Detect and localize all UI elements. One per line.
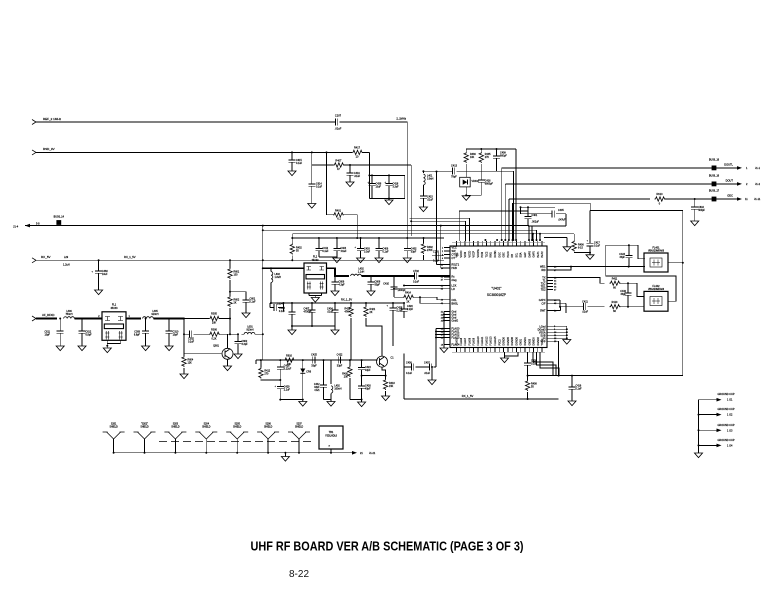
ground: [331, 291, 339, 296]
page number: [289, 568, 309, 580]
ground: [333, 258, 341, 263]
inductor L306: [64, 310, 75, 319]
svg-text:YSDLHDL8: YSDLHDL8: [325, 436, 338, 438]
filter FL401: [644, 247, 668, 273]
svg-text:0.1uF: 0.1uF: [413, 281, 420, 284]
svg-text:R305: R305: [211, 313, 217, 316]
ground: [382, 396, 390, 401]
wire DOUTL net: [502, 168, 738, 240]
wire: [262, 225, 264, 361]
node junction: [571, 375, 573, 377]
svg-text:RX_1_5V: RX_1_5V: [124, 255, 136, 259]
ferrite bead BUS6_14: [54, 216, 65, 226]
svg-text:270: 270: [264, 373, 269, 376]
inductor L602: [263, 267, 281, 304]
capacitor C416: [465, 180, 493, 197]
wire emitter: [382, 367, 386, 375]
transistor Q601: [213, 345, 233, 360]
wire: [262, 229, 537, 241]
wire: [532, 233, 534, 241]
ground: [180, 374, 188, 379]
svg-text:RX_1_5V: RX_1_5V: [462, 394, 474, 398]
svg-text:SHIELD: SHIELD: [202, 427, 211, 429]
inductor L402: [351, 268, 365, 276]
svg-text:43pF: 43pF: [365, 369, 371, 372]
svg-text:J1-11: J1-11: [754, 197, 761, 201]
svg-text:750nH: 750nH: [65, 313, 72, 316]
svg-text:VCCO: VCCO: [460, 250, 463, 257]
node connector J1-2: [737, 182, 761, 186]
svg-text:.01uF: .01uF: [582, 311, 589, 314]
capacitor C310: [166, 319, 179, 347]
svg-text:0.1uF: 0.1uF: [383, 251, 390, 254]
wire CAPX stub: [553, 300, 561, 308]
capacitor C404: [333, 237, 347, 258]
capacitor C409: [493, 148, 507, 171]
ferrite bead BUS6_16: [709, 159, 734, 171]
node junction: [527, 375, 529, 377]
svg-text:FLAG11: FLAG11: [481, 336, 484, 345]
svg-text:R610: R610: [657, 193, 664, 196]
wire bold: [334, 275, 415, 277]
svg-text:IRD: IRD: [541, 269, 546, 272]
wire collector: [381, 348, 383, 357]
svg-text:.002uF: .002uF: [532, 221, 540, 224]
wire: [184, 318, 201, 320]
wire: [291, 325, 335, 327]
wire: [59, 318, 102, 320]
svg-text:0.2K: 0.2K: [212, 337, 217, 340]
svg-text:ODC: ODC: [727, 194, 733, 198]
svg-text:1 G3: 1 G3: [727, 429, 733, 432]
title text: [251, 539, 524, 554]
svg-text:VCCPA: VCCPA: [477, 249, 480, 257]
svg-text:2.2uF: 2.2uF: [284, 389, 291, 392]
capacitor C432: [620, 283, 631, 308]
svg-text:DGND2: DGND2: [537, 336, 540, 345]
svg-text:R407: R407: [335, 160, 342, 163]
svg-text:43pF: 43pF: [365, 388, 371, 391]
svg-text:20K: 20K: [344, 376, 349, 379]
ferrite bead BUS6_17: [709, 190, 733, 202]
svg-text:SCL: SCL: [515, 252, 518, 257]
wire: [513, 203, 683, 240]
wire: [392, 311, 394, 346]
svg-text:DGND0: DGND0: [515, 336, 518, 345]
svg-text:45U33: 45U33: [110, 307, 118, 310]
svg-text:0.1uF: 0.1uF: [279, 310, 286, 313]
wire: [219, 319, 238, 336]
diode CR6: [300, 359, 311, 401]
capacitor C611: [44, 319, 63, 347]
wire C401 feed: [459, 211, 528, 241]
svg-text:P1C0: P1C0: [507, 251, 510, 258]
capacitor C434: [327, 302, 339, 330]
svg-text:2_1MHz: 2_1MHz: [396, 117, 406, 121]
svg-text:R401: R401: [335, 209, 342, 212]
svg-text:0.1uF: 0.1uF: [576, 388, 583, 391]
svg-text:VBA320MRA06: VBA320MRA06: [648, 288, 665, 291]
wire: [126, 318, 141, 320]
svg-text:.01uF: .01uF: [427, 199, 434, 202]
svg-text:0.1uF: 0.1uF: [188, 341, 195, 344]
wire: [529, 226, 541, 241]
capacitor C612: [79, 319, 93, 347]
svg-text:33pF: 33pF: [620, 256, 626, 259]
svg-text:GndG: GndG: [452, 320, 459, 323]
svg-text:FLAG7: FLAG7: [464, 337, 467, 345]
capacitor C422: [337, 354, 343, 368]
svg-text:3.3uF: 3.3uF: [393, 186, 400, 189]
wire: [279, 399, 303, 401]
resistor R604: [182, 353, 194, 374]
svg-text:4.3pF: 4.3pF: [339, 284, 346, 287]
svg-text:/Avg: /Avg: [452, 279, 458, 282]
svg-text:SWT: SWT: [540, 310, 546, 313]
capacitor C439: [524, 352, 538, 376]
wire antenna bus: [114, 452, 353, 454]
wire FLAG bus: [435, 329, 450, 368]
svg-text:SDA: SDA: [520, 252, 523, 257]
node connector J1-1: [737, 166, 761, 170]
ground: [375, 258, 383, 263]
svg-text:C413: C413: [451, 165, 458, 168]
capacitor C406: [376, 237, 390, 258]
wire bold out: [327, 268, 350, 276]
ground: [367, 291, 375, 296]
svg-text:FLAG15: FLAG15: [494, 336, 497, 346]
terminal TB1: [319, 426, 343, 454]
wire: [292, 233, 574, 235]
wire lower-left box: [404, 354, 559, 400]
svg-text:"S202": "S202": [141, 424, 148, 426]
wire base column: [183, 319, 222, 354]
node RX_5V input: [32, 255, 51, 263]
ground: [440, 348, 448, 353]
capacitor C416b: [569, 376, 583, 401]
inductor L305: [143, 310, 159, 319]
svg-text:T1C2: T1C2: [485, 251, 488, 258]
ground: [544, 237, 571, 251]
svg-text:DCB/1: DCB/1: [494, 250, 497, 258]
svg-text:BUS6_14: BUS6_14: [54, 216, 65, 219]
resistor R420: [342, 360, 352, 399]
svg-text:GROUND CUP: GROUND CUP: [717, 408, 734, 411]
ground: [331, 330, 339, 335]
wire: [410, 165, 412, 236]
ground: [691, 221, 699, 226]
capacitor C606: [332, 276, 346, 291]
wire: [620, 282, 645, 296]
svg-text:0.1uF: 0.1uF: [406, 372, 413, 375]
svg-text:0.1uF: 0.1uF: [250, 301, 257, 304]
svg-text:SHIELD: SHIELD: [233, 427, 242, 429]
capacitor C421: [560, 301, 605, 314]
svg-text:C425: C425: [311, 354, 317, 357]
svg-text:S204: S204: [204, 424, 210, 426]
capacitor C309: [134, 319, 149, 347]
svg-text:FLAG10: FLAG10: [477, 336, 480, 346]
svg-text:GAP1: GAP1: [533, 250, 536, 257]
ferrite bead BUS6_16b: [709, 175, 734, 187]
resistor R421: [364, 302, 382, 348]
ground: [165, 346, 173, 351]
resistor R602: [228, 292, 240, 319]
svg-text:BUS6_16: BUS6_16: [709, 175, 720, 178]
ground: [327, 402, 335, 407]
svg-text:SC380016ZP: SC380016ZP: [487, 293, 506, 297]
svg-text:0.1uF: 0.1uF: [296, 162, 303, 165]
wire: [620, 306, 645, 308]
wire emitter: [224, 359, 232, 370]
resistor R411: [610, 277, 621, 289]
node junction: [368, 174, 370, 176]
resistor R419: [345, 302, 354, 360]
wire pin feed: [410, 220, 465, 241]
svg-text:RX_1_5V: RX_1_5V: [341, 298, 352, 302]
node junction: [349, 359, 351, 361]
inductor L403: [324, 360, 342, 401]
svg-text:2.2pF: 2.2pF: [407, 308, 414, 311]
node junction: [229, 291, 231, 293]
svg-text:10K: 10K: [470, 156, 475, 159]
wire TX net: [553, 278, 605, 284]
wire ground-cup bus: [698, 400, 700, 453]
svg-text:GBC: GBC: [503, 252, 506, 257]
resistor R410: [610, 301, 621, 313]
U401 bottom pins: [452, 336, 545, 353]
wire IRD net: [553, 266, 572, 270]
wire: [291, 234, 444, 239]
svg-text:100nH: 100nH: [334, 388, 341, 391]
U401 right pins: [538, 266, 558, 344]
svg-text:15K: 15K: [389, 385, 394, 388]
svg-text:R306: R306: [211, 328, 217, 331]
svg-text:C410: C410: [383, 283, 389, 286]
wire ODC net: [509, 199, 650, 240]
ground: [568, 401, 576, 406]
wire: [465, 175, 467, 195]
svg-text:1.1uH: 1.1uH: [358, 271, 365, 274]
ground: [95, 290, 103, 295]
filter FL2: [304, 256, 327, 294]
inductor L601: [242, 326, 264, 336]
capacitor C703: [432, 251, 444, 263]
wire: [406, 122, 408, 246]
node junction: [183, 318, 185, 320]
svg-text:3.3pF: 3.3pF: [242, 343, 249, 346]
node junction: [694, 198, 696, 200]
svg-text:DGC: DGC: [498, 252, 501, 258]
wire: [362, 375, 387, 377]
svg-text:.01uF: .01uF: [335, 127, 342, 131]
resistor R418: [383, 376, 395, 396]
resistor R612: [259, 359, 282, 381]
wire collector: [227, 334, 229, 348]
svg-text:REF_2 1MHz: REF_2 1MHz: [43, 117, 62, 121]
svg-text:10uF: 10uF: [376, 186, 382, 189]
capacitor C419: [347, 165, 361, 182]
svg-text:2K: 2K: [407, 300, 410, 303]
wire LCK: [403, 285, 444, 287]
svg-text:GAP: GAP: [524, 252, 527, 257]
wire pin feed 2: [410, 218, 470, 241]
svg-text:910nH: 910nH: [246, 329, 253, 332]
capacitor C415: [420, 196, 434, 208]
capacitor C615: [289, 152, 303, 168]
ground: [695, 453, 703, 458]
resistor R401: [326, 151, 359, 239]
svg-text:3.9uH: 3.9uH: [427, 178, 434, 181]
svg-text:33pF: 33pF: [621, 293, 627, 296]
capacitor C413: [423, 165, 513, 179]
resistor R402: [421, 237, 433, 260]
svg-text:KIN1: KIN1: [490, 252, 493, 258]
ground: [428, 366, 436, 385]
node connector J1-11: [737, 197, 761, 201]
op-amp U401 body: [450, 246, 547, 348]
svg-text:45U33: 45U33: [311, 259, 319, 262]
node junction: [262, 259, 264, 261]
svg-text:33pF: 33pF: [337, 365, 343, 368]
capacitor C207: [335, 114, 342, 131]
svg-text:RX_5V: RX_5V: [41, 255, 51, 259]
capacitor C604: [270, 302, 285, 311]
svg-text:BUS6_17: BUS6_17: [709, 190, 720, 193]
ground: [56, 346, 64, 351]
svg-text:C436: C436: [406, 362, 412, 365]
wire gnd bus: [443, 312, 450, 349]
wire top rail: [466, 148, 516, 150]
node UF_RFXD input: [32, 313, 54, 321]
svg-text:10pF: 10pF: [173, 334, 179, 337]
svg-text:FLAG13: FLAG13: [490, 336, 493, 346]
wire: [230, 291, 246, 293]
svg-text:LO: LO: [452, 288, 455, 291]
svg-text:.01uF: .01uF: [327, 311, 334, 314]
svg-text:33pF: 33pF: [311, 365, 317, 368]
ground: [309, 293, 322, 302]
svg-text:R616: R616: [286, 354, 292, 357]
svg-text:.01uF: .01uF: [424, 372, 431, 375]
svg-text:RSD_9V: RSD_9V: [43, 147, 55, 151]
wire RX_1_5V rail: [270, 298, 404, 303]
svg-text:.01uF: .01uF: [340, 250, 347, 253]
wire: [668, 262, 684, 264]
svg-text:J1-4: J1-4: [13, 225, 19, 229]
svg-text:SHIELD: SHIELD: [295, 427, 304, 429]
ground: [419, 207, 427, 212]
svg-text:C421: C421: [582, 301, 588, 304]
capacitor C428: [386, 302, 403, 313]
svg-text:OT: OT: [452, 257, 456, 260]
ground: [462, 196, 470, 201]
svg-text:20K: 20K: [287, 363, 292, 366]
wire RSLT1 feed: [436, 171, 445, 265]
capacitor C423: [358, 359, 371, 377]
resistor R305: [209, 313, 220, 325]
svg-text:VPP: VPP: [540, 340, 545, 343]
svg-text:"U401": "U401": [492, 287, 502, 291]
wire DGnd staircase: [533, 352, 559, 376]
svg-text:C405: C405: [558, 209, 564, 212]
svg-text:DGND8: DGND8: [511, 336, 514, 345]
wire rail to shield edge: [528, 375, 683, 377]
svg-text:L29: L29: [64, 256, 69, 259]
svg-text:600pF: 600pF: [500, 155, 507, 158]
svg-text:33pF: 33pF: [411, 251, 417, 254]
svg-text:DGND0: DGND0: [503, 336, 506, 345]
svg-text:DOUT: DOUT: [726, 179, 734, 183]
svg-text:DB: DB: [511, 254, 514, 258]
ground: [103, 340, 120, 352]
svg-text:VBA320MRA06: VBA320MRA06: [648, 250, 665, 253]
svg-text:DAPS: DAPS: [528, 251, 531, 258]
svg-text:S207: S207: [296, 424, 302, 426]
capacitor C610: [691, 199, 705, 221]
svg-text:R410: R410: [612, 301, 618, 304]
capacitor C405b: [279, 302, 296, 330]
svg-text:R414: R414: [405, 291, 411, 294]
ground: [288, 168, 296, 176]
wire FL402 output loop: [606, 245, 676, 301]
capacitor C438: [367, 175, 382, 198]
svg-text:FLAG12: FLAG12: [485, 336, 488, 346]
svg-text:12K: 12K: [188, 362, 193, 365]
svg-text:CR6: CR6: [306, 371, 311, 374]
resistor R407: [312, 152, 345, 171]
ground: [371, 174, 393, 204]
svg-text:Cb/1: Cb/1: [315, 389, 321, 392]
svg-text:1 G1: 1 G1: [727, 399, 733, 402]
transistor Q1: [377, 356, 395, 367]
ground: [281, 452, 289, 461]
capacitor C302: [184, 331, 209, 344]
wire rail: [256, 360, 378, 364]
svg-text:R417: R417: [354, 147, 361, 150]
svg-text:27K: 27K: [485, 156, 490, 159]
svg-text:10uF: 10uF: [102, 273, 108, 276]
svg-text:.047uF: .047uF: [558, 219, 566, 222]
node junction: [311, 151, 313, 153]
wire: [528, 226, 530, 240]
svg-text:2K: 2K: [370, 311, 373, 314]
resistor R436: [464, 149, 476, 175]
node junction: [291, 151, 293, 153]
antennas S201-S207 shields: [103, 424, 310, 454]
svg-text:0.1uF: 0.1uF: [594, 245, 601, 248]
wire: [515, 149, 517, 240]
svg-text:R411: R411: [612, 277, 618, 280]
resistor R435: [479, 148, 491, 180]
wire CF stub: [553, 303, 566, 313]
resistor R601: [228, 268, 240, 292]
svg-text:4700pF: 4700pF: [304, 311, 313, 314]
svg-text:C422: C422: [337, 354, 343, 357]
wire BHSL: [419, 296, 444, 303]
ground: [78, 346, 86, 351]
resistor R406: [572, 234, 590, 253]
wire: [184, 318, 231, 320]
ground: [142, 346, 150, 351]
capacitor C417: [586, 211, 601, 260]
svg-text:6.1: 6.1: [337, 218, 341, 221]
ground: [346, 182, 354, 187]
resistor R408: [525, 376, 537, 400]
svg-text:TD2: TD2: [541, 289, 546, 292]
svg-text:79pF: 79pF: [451, 176, 457, 179]
resistor R414: [394, 291, 444, 303]
